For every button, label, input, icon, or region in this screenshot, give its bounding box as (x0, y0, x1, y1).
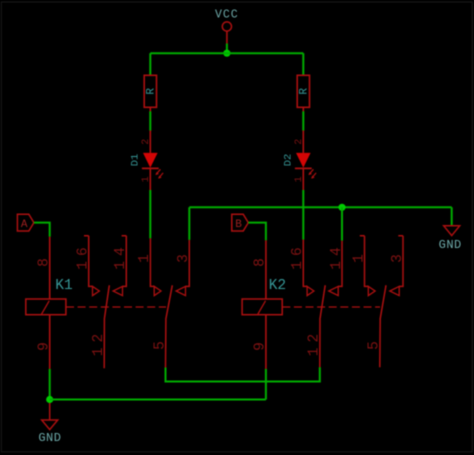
svg-text:16: 16 (76, 242, 92, 269)
svg-text:D2: D2 (282, 154, 294, 167)
D2 cathode pin 1 lead (302, 168, 304, 190)
svg-text:1: 1 (351, 249, 367, 263)
svg-text:9: 9 (253, 337, 269, 351)
svg-text:VCC: VCC (215, 9, 239, 22)
K1 pin 16 (84, 236, 93, 287)
K1 pole B blade / pin 5 (166, 285, 173, 367)
K2 pin 3 (398, 236, 403, 287)
K2 pole A blade / pin 12 (320, 285, 325, 367)
K1 coil pin 9 (49, 315, 51, 369)
K2 pin 14 (338, 241, 342, 287)
svg-text:9: 9 (37, 337, 53, 351)
svg-text:12: 12 (91, 329, 107, 356)
K2 pin 3 contact arrow (390, 286, 399, 295)
wire top horizontal (150, 52, 303, 54)
port B outline (232, 214, 249, 231)
svg-text:1: 1 (137, 249, 153, 263)
ground right (439, 226, 462, 252)
K1 pin 3 contact arrow (176, 286, 185, 295)
svg-text:3: 3 (390, 249, 406, 263)
wire bottom gnd horizontal (50, 399, 266, 401)
D2 emission arrow 1 (309, 169, 313, 174)
LED D1 (129, 130, 163, 190)
junction gnd net (338, 204, 345, 211)
wire port B to K2 coil (248, 223, 266, 241)
svg-text:1: 1 (294, 176, 305, 182)
K2 pin 16 (303, 240, 307, 287)
svg-text:14: 14 (329, 242, 345, 269)
R1 body (144, 75, 156, 107)
resistor R2 (297, 75, 310, 112)
svg-text:2: 2 (141, 139, 152, 145)
port B (232, 214, 249, 231)
relay K1 (26, 236, 192, 369)
D1 anode pin 2 lead (149, 130, 151, 153)
K1 pin 1 (150, 238, 154, 286)
svg-text:1: 1 (141, 176, 152, 182)
ground left lead (49, 403, 51, 420)
svg-text:16: 16 (290, 242, 306, 269)
D1 emission arrow 2 (159, 173, 163, 178)
svg-text:2: 2 (294, 139, 305, 145)
D2 emission arrow 2 (312, 173, 316, 178)
R2 bottom pin stub (302, 107, 304, 112)
K1 linkage dashed line (66, 306, 166, 308)
svg-text:D1: D1 (129, 154, 141, 167)
K1 pin 16 contact arrow (93, 286, 100, 295)
K1 pin 14 contact arrow (113, 286, 122, 295)
D2 cathode bar (295, 167, 312, 169)
svg-text:12: 12 (307, 329, 323, 356)
K2 pin 16 contact arrow (307, 286, 314, 295)
K1 coil pin 8 (49, 237, 51, 299)
svg-text:8: 8 (37, 253, 53, 267)
D2 triangle (296, 153, 311, 168)
K1 pin 1 contact arrow (154, 286, 161, 295)
D1 cathode pin 1 lead (149, 168, 151, 190)
K1 pin 3 (186, 240, 190, 287)
svg-text:K1: K1 (55, 278, 72, 294)
D1 emission arrow 1 (156, 169, 160, 174)
K2 pin 14 contact arrow (329, 286, 338, 295)
svg-text:R: R (298, 88, 310, 95)
wire port A to K1 coil (34, 223, 50, 237)
K2 linkage dashed line (282, 306, 380, 308)
wire gnd net horizontal (189, 206, 451, 208)
svg-text:R: R (145, 88, 157, 95)
svg-text:5: 5 (367, 336, 383, 350)
wire R2 to D2 (302, 111, 304, 131)
K1 pole A blade / pin 12 (104, 285, 109, 368)
junction VCC node (223, 50, 230, 57)
wire to R2 (302, 53, 304, 75)
svg-text:3: 3 (176, 249, 192, 263)
wire K1 pin3 up (188, 207, 190, 240)
D1 cathode bar (142, 167, 159, 169)
svg-text:GND: GND (38, 431, 61, 445)
K2 coil pin 9 (265, 315, 267, 369)
wire to GND right (451, 207, 453, 226)
K1 coil box (26, 299, 66, 315)
wire K1 pin9 to gnd junction (49, 369, 51, 400)
ground left triangle (42, 420, 58, 430)
svg-text:B: B (235, 219, 242, 231)
wire VCC to junction (226, 44, 228, 54)
svg-text:GND: GND (439, 238, 462, 252)
R2 body (297, 75, 309, 107)
wire D2 to K2 pin16 (302, 190, 304, 240)
ground right triangle (444, 226, 460, 236)
svg-text:8: 8 (253, 253, 269, 267)
svg-text:5: 5 (152, 336, 168, 350)
wire K1 pin5 to K2 pin12 (166, 367, 320, 381)
wire R1 to D1 (149, 111, 151, 131)
wire to R1 (149, 53, 151, 75)
D1 triangle (143, 153, 158, 168)
K2 pole B blade / pin 5 (380, 285, 386, 367)
R1 bottom pin stub (149, 107, 151, 112)
VCC symbol lead (226, 31, 228, 44)
K2 pin 1 (360, 236, 369, 287)
resistor R1 (144, 75, 157, 112)
K2 pin 1 contact arrow (368, 286, 375, 295)
relay K2 (242, 236, 406, 369)
K2 coil diagonal (258, 301, 266, 314)
ground left (38, 420, 61, 445)
wire junction to K2 pin14 (341, 207, 343, 240)
port A outline (17, 214, 34, 231)
wire K2 pin9 down (265, 369, 267, 400)
svg-text:14: 14 (113, 242, 129, 269)
svg-text:K2: K2 (269, 278, 286, 294)
port A (17, 214, 34, 231)
wire D1 to K1 pin1 (149, 190, 151, 238)
junction gnd bottom (46, 396, 53, 403)
K2 coil box (242, 299, 282, 315)
VCC power symbol circle (222, 22, 231, 31)
D2 anode pin 2 lead (302, 130, 304, 153)
K2 coil pin 8 (265, 240, 267, 299)
LED D2 (282, 130, 316, 190)
K1 coil diagonal (42, 301, 50, 314)
K1 pin 14 (122, 236, 127, 287)
svg-text:A: A (21, 219, 28, 231)
